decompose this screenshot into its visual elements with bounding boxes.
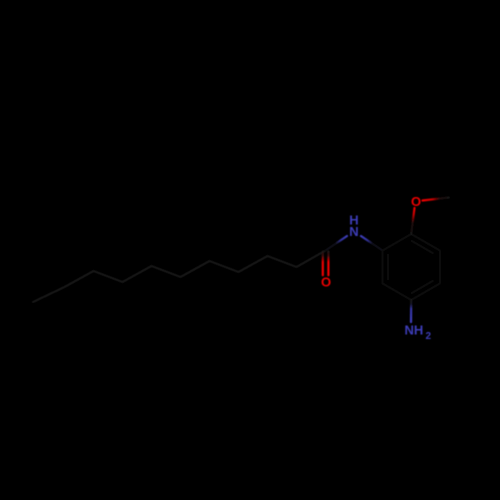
wire N-C carbonyl <box>326 236 348 251</box>
wire alkyl chain zigzag C11 <box>33 251 326 303</box>
benzene inner double bonds <box>411 240 434 253</box>
svg-text:2: 2 <box>426 331 432 342</box>
benzene ring outer bonds <box>383 234 440 300</box>
wire ring C2 - methoxy O <box>411 208 414 234</box>
carbonyl C=O double bond <box>322 252 324 276</box>
wire N-C1 ring <box>361 236 383 251</box>
svg-text:O: O <box>411 194 421 209</box>
svg-text:NH: NH <box>405 323 424 338</box>
svg-text:O: O <box>321 275 331 290</box>
svg-text:N: N <box>349 224 358 239</box>
wire methoxy O - CH3 <box>423 198 449 201</box>
wire ring C5 - NH2 <box>410 300 412 322</box>
